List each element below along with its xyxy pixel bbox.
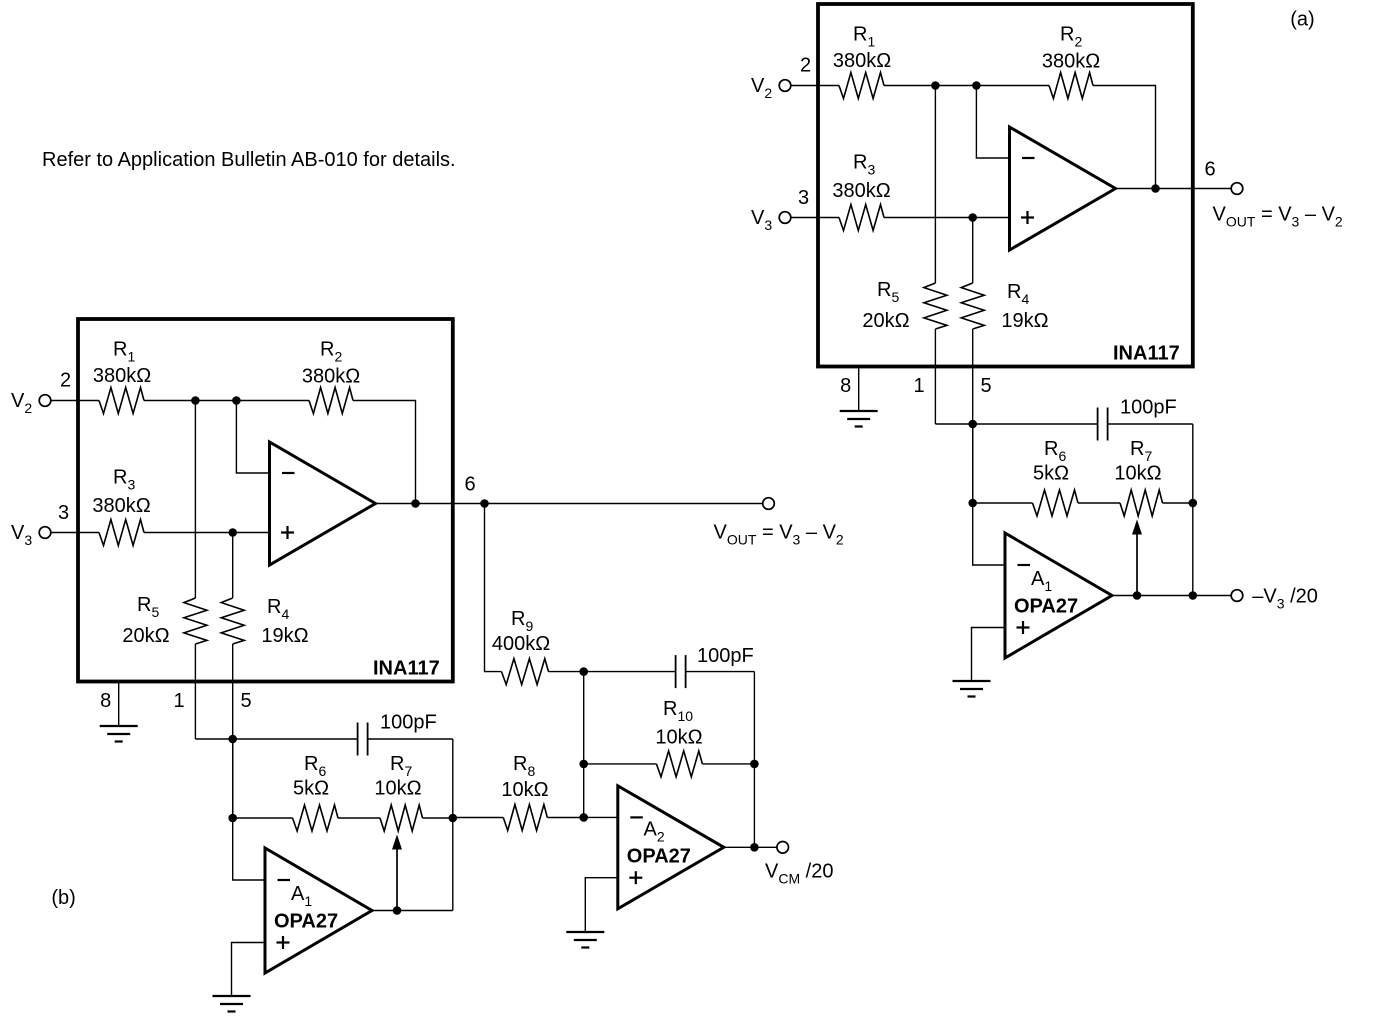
wire R7 to A1 output (a) — [1192, 503, 1194, 596]
pin 6 label (b) — [464, 474, 475, 496]
R7 wiper arrow (b) — [392, 835, 402, 911]
svg-text:R6​: R6​ — [1044, 438, 1066, 464]
label R5 (a) — [877, 279, 899, 305]
svg-text:3: 3 — [58, 502, 69, 524]
label OPA27 A1 (a) — [1014, 596, 1078, 618]
wire V2 input (a) — [791, 85, 839, 87]
resistor R2 (b) — [309, 388, 353, 414]
resistor R6 (b) — [293, 805, 339, 831]
wire A1 output (a) — [1112, 595, 1137, 597]
label R4 value 19k (b) — [261, 625, 308, 647]
node feedback/output junction (b) — [411, 499, 420, 508]
node R1/R5 junction (b) — [191, 396, 200, 405]
label 100pF A1 (a) — [1120, 397, 1177, 419]
wire pin 6 to VOUT terminal (a) — [1193, 188, 1231, 190]
wire R2 to output (a) — [1093, 86, 1156, 189]
terminal VCM/20 (b) — [777, 842, 789, 854]
label V2 (a) — [751, 75, 772, 101]
node VOUT/R9 branch junction (b) — [480, 499, 489, 508]
wire A2 inverting node vertical (b) — [583, 672, 585, 818]
wire R3 to noninverting input (b) — [144, 532, 270, 534]
svg-text:8: 8 — [840, 375, 851, 397]
node A2 output junction (b) — [750, 843, 759, 852]
svg-text:R4​: R4​ — [1007, 281, 1029, 307]
svg-text:380kΩ: 380kΩ — [92, 495, 150, 517]
label R4 value 19k (a) — [1001, 310, 1048, 332]
label R2 (a) — [1060, 24, 1082, 50]
label VCM/20 (b) — [765, 861, 833, 887]
node R7 right junction (a) — [1189, 499, 1198, 508]
label R6 value 5k (b) — [293, 778, 329, 800]
terminal V3 (b) — [39, 527, 51, 539]
label OPA27 A2 (b) — [627, 846, 691, 868]
svg-text:10kΩ: 10kΩ — [1114, 463, 1161, 485]
label R1 (b) — [113, 339, 135, 365]
resistor R3 (b) — [99, 520, 144, 546]
label R1 value 380k (b) — [93, 365, 151, 387]
node pins 1-5 junction (a) — [968, 420, 977, 429]
wire R3 to noninverting input (a) — [884, 217, 1010, 219]
wire junction to A1 inverting input (b) — [233, 739, 265, 880]
label A1 (a) — [1031, 568, 1052, 594]
svg-text:R5​: R5​ — [137, 594, 159, 620]
resistor R7 potentiometer (a) — [1120, 490, 1163, 516]
node R4 junction (a) — [968, 213, 977, 222]
svg-text:380kΩ: 380kΩ — [1042, 51, 1100, 73]
resistor R5 (a) — [924, 283, 947, 329]
svg-text:R9​: R9​ — [511, 608, 533, 634]
svg-text:5: 5 — [240, 690, 251, 712]
ground A1 (b) — [213, 996, 251, 1012]
pin 3 label (b) — [58, 502, 69, 524]
wire R10 right to A2 output (b) — [753, 764, 755, 847]
pin 5 label (b) — [240, 690, 251, 712]
wire pin 6 output (b) — [453, 503, 763, 505]
label R6 (a) — [1044, 438, 1066, 464]
op-amp difference amplifier (a) — [1010, 127, 1116, 250]
svg-text:1: 1 — [913, 375, 924, 397]
wire VOUT to R9 (b) — [485, 504, 502, 672]
svg-text:8: 8 — [100, 690, 111, 712]
svg-text:5kΩ: 5kΩ — [1033, 463, 1069, 485]
svg-text:20kΩ: 20kΩ — [862, 310, 909, 332]
wire A1 noninverting to ground (b) — [232, 943, 266, 997]
svg-text:R2​: R2​ — [320, 339, 342, 365]
label R8 value 10k (b) — [501, 779, 548, 801]
wire R1 to R2 node (a) — [884, 85, 1049, 87]
label VOUT = V3 - V2 (a) — [1213, 204, 1343, 230]
terminal -V3/20 (a) — [1231, 590, 1243, 602]
label R10 (b) — [663, 698, 693, 724]
wire R10 row (b) — [584, 763, 755, 765]
svg-text:(a): (a) — [1290, 9, 1314, 31]
terminal VOUT (a) — [1231, 183, 1243, 195]
svg-text:R8​: R8​ — [513, 753, 535, 779]
wire V3 input (a) — [791, 217, 839, 219]
label A1 (b) — [291, 883, 312, 909]
wire to inverting input (a) — [976, 86, 1009, 159]
svg-text:380kΩ: 380kΩ — [93, 365, 151, 387]
pin 1 label (b) — [173, 690, 184, 712]
label R3 value 380k (b) — [92, 495, 150, 517]
pin 8 label (a) — [840, 375, 851, 397]
resistor R8 (b) — [503, 805, 547, 831]
resistor R1 (a) — [839, 73, 884, 99]
svg-text:R3​: R3​ — [113, 467, 135, 493]
label R10 value 10k (b) — [655, 727, 702, 749]
node R7 right junction (b) — [449, 814, 458, 823]
resistor R9 (b) — [502, 659, 549, 685]
wire V3 input (b) — [51, 532, 99, 534]
svg-text:1: 1 — [173, 690, 184, 712]
svg-text:VOUT​ = V3​ – V2​: VOUT​ = V3​ – V2​ — [1213, 204, 1343, 230]
wire op-amp output pin 6 (a) — [1116, 188, 1193, 190]
op-amp A1 OPA27 (b) — [265, 848, 372, 973]
wire R4 branch (b) — [232, 533, 234, 819]
svg-text:R10​: R10​ — [663, 698, 693, 724]
label R2 (b) — [320, 339, 342, 365]
svg-text:VOUT​ = V3​ – V2​: VOUT​ = V3​ – V2​ — [714, 522, 844, 548]
INA117 box outline (a) — [818, 4, 1193, 367]
label (b) — [51, 887, 75, 909]
svg-text:Refer to Application Bulletin: Refer to Application Bulletin AB-010 for… — [42, 149, 456, 171]
svg-text:INA117: INA117 — [1113, 343, 1180, 365]
label R3 (a) — [853, 152, 875, 178]
svg-text:V3​: V3​ — [751, 207, 772, 233]
svg-text:400kΩ: 400kΩ — [492, 633, 550, 655]
svg-text:19kΩ: 19kΩ — [261, 625, 308, 647]
resistor R3 (a) — [839, 205, 884, 231]
wire 100pF feedback top (b) — [233, 739, 453, 818]
pin 3 label (a) — [798, 187, 809, 209]
wire A2 noninverting to ground (b) — [585, 878, 618, 932]
op-amp difference amplifier (b) — [270, 442, 376, 565]
label R3 (b) — [113, 467, 135, 493]
wire pin 8 to ground (b) — [118, 682, 120, 727]
node feedback/output junction (a) — [1151, 184, 1160, 193]
label R2 value 380k (b) — [302, 366, 360, 388]
svg-text:2: 2 — [60, 370, 71, 392]
ground A2 (b) — [566, 932, 604, 948]
wire 100pF feedback A2 (b) — [584, 672, 755, 764]
svg-text:100pF: 100pF — [697, 645, 754, 667]
label R7 (a) — [1130, 438, 1152, 464]
resistor R1 (b) — [99, 388, 144, 414]
svg-text:OPA27: OPA27 — [1014, 596, 1078, 618]
label R3 value 380k (a) — [832, 180, 890, 202]
terminal VOUT (b) — [763, 498, 775, 510]
svg-text:380kΩ: 380kΩ — [302, 366, 360, 388]
INA117 label (a) — [1113, 343, 1180, 365]
label VOUT = V3 - V2 (b) — [714, 522, 844, 548]
svg-text:V2​: V2​ — [11, 390, 32, 416]
INA117 box outline (b) — [78, 319, 453, 682]
node R1/R5 junction (a) — [931, 81, 940, 90]
label R1 (a) — [853, 24, 875, 50]
wire R7 to A1 output (b) — [452, 818, 454, 911]
wire junction to A1 inverting input (a) — [973, 424, 1005, 565]
svg-text:2: 2 — [800, 55, 811, 77]
label R4 (b) — [267, 596, 289, 622]
wire A1 noninverting to ground (a) — [972, 628, 1006, 682]
label R7 (b) — [390, 753, 412, 779]
node R6 left junction (a) — [968, 499, 977, 508]
svg-text:(b): (b) — [51, 887, 75, 909]
svg-text:100pF: 100pF — [1120, 397, 1177, 419]
resistor R4 (b) — [221, 598, 244, 644]
label A2 (b) — [644, 819, 665, 845]
svg-text:OPA27: OPA27 — [627, 846, 691, 868]
node R9/cap junction (b) — [579, 667, 588, 676]
label -V3/20 (a) — [1252, 586, 1318, 612]
pin 2 label (b) — [60, 370, 71, 392]
node R7 wiper junction (b) — [393, 906, 402, 915]
terminal V2 (b) — [39, 395, 51, 407]
wire A2 output (b) — [724, 846, 777, 848]
resistor R4 (a) — [961, 283, 984, 329]
wire R6 R7 row (b) — [233, 817, 453, 819]
svg-text:10kΩ: 10kΩ — [655, 727, 702, 749]
node pins 1-5 junction (b) — [228, 735, 237, 744]
svg-text:100pF: 100pF — [380, 712, 437, 734]
svg-text:10kΩ: 10kΩ — [501, 779, 548, 801]
wire op-amp output pin 6 (b) — [376, 503, 453, 505]
wire A1 output to feedback corner (b) — [397, 910, 453, 912]
svg-text:10kΩ: 10kΩ — [374, 778, 421, 800]
wire R9 to A2 node (b) — [549, 671, 584, 673]
node R10 right junction (b) — [750, 760, 759, 769]
label R2 value 380k (a) — [1042, 51, 1100, 73]
label R5 value 20k (a) — [862, 310, 909, 332]
svg-text:R1​: R1​ — [853, 24, 875, 50]
note text — [42, 149, 456, 171]
label (a) — [1290, 9, 1314, 31]
terminal V2 (a) — [779, 80, 791, 92]
label R7 value 10k (b) — [374, 778, 421, 800]
svg-text:VCM​ /20: VCM​ /20 — [765, 861, 833, 887]
label 100pF A2 (b) — [697, 645, 754, 667]
svg-text:R7​: R7​ — [1130, 438, 1152, 464]
wire to A2 inverting input (b) — [584, 816, 618, 818]
INA117 label (b) — [373, 658, 440, 680]
pin 1 label (a) — [913, 375, 924, 397]
svg-text:5: 5 — [980, 375, 991, 397]
label R4 (a) — [1007, 281, 1029, 307]
wire R2 to output (b) — [353, 401, 416, 504]
svg-text:OPA27: OPA27 — [274, 911, 338, 933]
label 100pF A1 (b) — [380, 712, 437, 734]
label V2 (b) — [11, 390, 32, 416]
label R6 (b) — [304, 753, 326, 779]
svg-text:INA117: INA117 — [373, 658, 440, 680]
node R6 left junction (b) — [228, 814, 237, 823]
wire V2 input (b) — [51, 400, 99, 402]
op-amp A2 OPA27 (b) — [618, 786, 724, 909]
wire R6 R7 row (a) — [973, 502, 1193, 504]
svg-text:R4​: R4​ — [267, 596, 289, 622]
svg-text:380kΩ: 380kΩ — [833, 50, 891, 72]
wire R5 branch (a) — [935, 86, 972, 425]
wire 100pF feedback top (a) — [973, 424, 1193, 503]
pin 6 label (a) — [1204, 159, 1215, 181]
label V3 (a) — [751, 207, 772, 233]
svg-text:V3​: V3​ — [11, 522, 32, 548]
R7 wiper arrow (a) — [1132, 520, 1142, 596]
wire pin 8 to ground (a) — [858, 367, 860, 412]
label R9 value 400k (b) — [492, 633, 550, 655]
ground pin 8 (b) — [100, 726, 138, 742]
svg-text:5kΩ: 5kΩ — [293, 778, 329, 800]
label R9 (b) — [511, 608, 533, 634]
node inverting branch junction (b) — [232, 396, 241, 405]
ground A1 (a) — [953, 681, 991, 697]
capacitor 100pF A2 (b) — [676, 655, 686, 688]
svg-text:R3​: R3​ — [853, 152, 875, 178]
label OPA27 A1 (b) — [274, 911, 338, 933]
resistor R6 (a) — [1033, 490, 1079, 516]
svg-text:19kΩ: 19kΩ — [1001, 310, 1048, 332]
svg-text:R5​: R5​ — [877, 279, 899, 305]
op-amp A1 OPA27 (a) — [1005, 533, 1112, 658]
label R8 (b) — [513, 753, 535, 779]
resistor R2 (a) — [1049, 73, 1093, 99]
label R5 (b) — [137, 594, 159, 620]
capacitor 100pF A1 (a) — [1098, 408, 1108, 441]
pin 2 label (a) — [800, 55, 811, 77]
label V3 (b) — [11, 522, 32, 548]
label R5 value 20k (b) — [122, 625, 169, 647]
svg-text:V2​: V2​ — [751, 75, 772, 101]
wire R4 branch (a) — [972, 218, 974, 504]
wire R5 branch (b) — [195, 401, 232, 740]
svg-text:6: 6 — [464, 474, 475, 496]
resistor R5 (b) — [184, 598, 207, 644]
node R7 wiper junction (a) — [1133, 591, 1142, 600]
pin 8 label (b) — [100, 690, 111, 712]
wire R1 to R2 node (b) — [144, 400, 309, 402]
node A1 output right junction (a) — [1189, 591, 1198, 600]
svg-text:20kΩ: 20kΩ — [122, 625, 169, 647]
wire to inverting input (b) — [236, 401, 269, 474]
resistor R10 (b) — [656, 751, 702, 777]
terminal V3 (a) — [779, 212, 791, 224]
capacitor 100pF A1 (b) — [358, 723, 368, 756]
label R6 value 5k (a) — [1033, 463, 1069, 485]
svg-text:R7​: R7​ — [390, 753, 412, 779]
node inverting branch junction (a) — [972, 81, 981, 90]
label R7 value 10k (a) — [1114, 463, 1161, 485]
svg-text:6: 6 — [1204, 159, 1215, 181]
label R1 value 380k (a) — [833, 50, 891, 72]
pin 5 label (a) — [980, 375, 991, 397]
svg-text:3: 3 — [798, 187, 809, 209]
resistor R7 potentiometer (b) — [380, 805, 423, 831]
node R10 left junction (b) — [579, 760, 588, 769]
wire A1 output (b) — [372, 910, 397, 912]
ground pin 8 (a) — [840, 411, 878, 427]
wire R8 row (b) — [453, 817, 584, 819]
svg-text:R2​: R2​ — [1060, 24, 1082, 50]
wire A1 output to terminal (a) — [1137, 595, 1231, 597]
svg-text:R6​: R6​ — [304, 753, 326, 779]
svg-text:R1​: R1​ — [113, 339, 135, 365]
svg-text:–V3​ /20: –V3​ /20 — [1252, 586, 1318, 612]
node R4 junction (b) — [228, 528, 237, 537]
svg-text:380kΩ: 380kΩ — [832, 180, 890, 202]
node A2 inverting junction (b) — [579, 813, 588, 822]
